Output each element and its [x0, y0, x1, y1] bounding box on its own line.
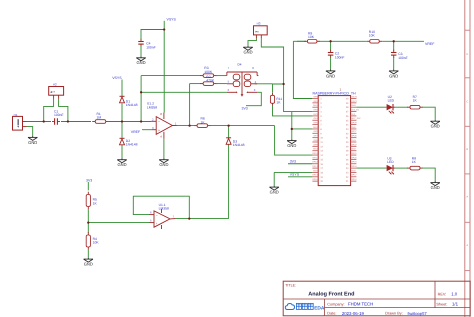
svg-text:1N4148: 1N4148: [126, 143, 138, 147]
svg-text:H2: H2: [53, 82, 57, 86]
svg-text:RASPBERRY-PI-PICO_TH: RASPBERRY-PI-PICO_TH: [313, 92, 357, 96]
svg-text:100K: 100K: [204, 70, 213, 74]
svg-text:GND: GND: [313, 126, 318, 129]
svg-text:VBUS: VBUS: [351, 95, 357, 98]
svg-text:GND: GND: [159, 162, 168, 167]
svg-text:GND: GND: [313, 169, 318, 172]
svg-text:VSYS: VSYS: [351, 100, 357, 103]
svg-text:GND: GND: [84, 262, 93, 267]
svg-text:GND: GND: [389, 73, 398, 78]
svg-text:3V3_EN: 3V3_EN: [351, 108, 359, 111]
svg-text:VREF: VREF: [425, 42, 434, 46]
svg-text:−: −: [156, 213, 158, 217]
svg-text:1/1: 1/1: [452, 302, 459, 307]
svg-text:REV:: REV:: [438, 292, 447, 296]
svg-text:1.0: 1.0: [451, 291, 458, 296]
svg-text:GND: GND: [431, 185, 440, 190]
svg-text:10K: 10K: [308, 35, 315, 39]
svg-text:3V3: 3V3: [86, 179, 92, 183]
svg-text:100nF: 100nF: [146, 45, 155, 49]
svg-text:EDA: EDA: [314, 305, 325, 311]
svg-text:GND: GND: [431, 124, 440, 129]
svg-text:GND: GND: [351, 169, 356, 172]
svg-text:Date:: Date:: [327, 312, 336, 316]
svg-text:H3: H3: [257, 22, 261, 26]
svg-text:GP26: GP26: [351, 135, 357, 138]
svg-text:1N4148: 1N4148: [233, 143, 245, 147]
svg-text:RUN: RUN: [351, 139, 356, 142]
svg-text:GP18: GP18: [351, 165, 357, 168]
svg-text:GP20: GP20: [351, 156, 357, 159]
svg-text:H1: H1: [14, 113, 18, 117]
svg-text:GP11: GP11: [312, 156, 318, 159]
svg-text:GND: GND: [136, 60, 145, 65]
svg-text:ADC_REF: ADC_REF: [351, 117, 361, 120]
svg-text:GP21: GP21: [351, 152, 357, 155]
svg-text:GND: GND: [326, 73, 335, 78]
svg-text:−: −: [158, 120, 160, 124]
svg-text:GP19: GP19: [351, 161, 357, 164]
svg-text:100nF: 100nF: [54, 113, 63, 117]
svg-text:2023-06-19: 2023-06-19: [342, 311, 365, 316]
svg-text:FHDM TECH: FHDM TECH: [348, 302, 373, 307]
svg-text:VREF: VREF: [131, 130, 140, 134]
svg-text:Drawn By:: Drawn By:: [385, 312, 403, 316]
svg-text:1N4148: 1N4148: [126, 103, 138, 107]
svg-text:D4: D4: [238, 62, 242, 66]
svg-text:GND: GND: [117, 162, 126, 167]
svg-text:GND: GND: [243, 50, 252, 55]
svg-text:GP14: GP14: [312, 174, 318, 177]
svg-text:Sheet:: Sheet:: [436, 302, 447, 306]
svg-text:fruitloop57: fruitloop57: [408, 311, 428, 316]
svg-text:GND: GND: [270, 190, 279, 195]
svg-text:LED: LED: [388, 99, 395, 103]
svg-text:LM358: LM358: [159, 206, 169, 210]
svg-text:GP16: GP16: [351, 178, 357, 181]
svg-text:GP17: GP17: [351, 174, 357, 177]
svg-text:470K: 470K: [206, 78, 215, 82]
svg-text:VSYS: VSYS: [112, 76, 122, 80]
svg-text:GP10: GP10: [312, 152, 318, 155]
svg-text:1M: 1M: [97, 116, 102, 120]
svg-text:GND: GND: [28, 140, 37, 145]
svg-text:A: A: [466, 196, 468, 199]
svg-text:Analog Front End: Analog Front End: [308, 291, 354, 297]
svg-text:GND: GND: [313, 148, 318, 151]
svg-text:GP12: GP12: [312, 161, 318, 164]
svg-text:LM358: LM358: [147, 105, 157, 109]
svg-text:GP27: GP27: [351, 130, 357, 133]
svg-text:GP13: GP13: [312, 165, 318, 168]
svg-text:GP28: GP28: [351, 122, 357, 125]
svg-text:100nF: 100nF: [335, 55, 344, 59]
svg-text:+: +: [158, 129, 160, 133]
svg-text:C: C: [466, 101, 468, 104]
svg-text:TITLE:: TITLE:: [285, 284, 296, 288]
svg-text:LED: LED: [387, 160, 394, 164]
svg-text:VSYS: VSYS: [290, 172, 300, 176]
svg-text:3V3: 3V3: [242, 107, 248, 111]
svg-text:+: +: [156, 222, 158, 226]
svg-text:VSYS: VSYS: [167, 17, 177, 21]
svg-text:GND: GND: [351, 126, 356, 129]
svg-text:10K: 10K: [369, 33, 376, 37]
svg-text:GND: GND: [287, 143, 296, 148]
svg-text:GND: GND: [351, 104, 356, 107]
svg-text:D: D: [466, 53, 468, 56]
svg-text:GND: GND: [351, 148, 356, 151]
svg-text:Company:: Company:: [327, 302, 344, 306]
svg-text:GND: GND: [313, 104, 318, 107]
svg-text:3V3: 3V3: [290, 160, 296, 164]
svg-text:GP15: GP15: [312, 178, 318, 181]
svg-text:10K: 10K: [93, 241, 100, 245]
svg-text:A: A: [466, 244, 468, 247]
svg-text:B: B: [466, 148, 468, 151]
svg-text:100nF: 100nF: [398, 56, 407, 60]
svg-text:GP22: GP22: [351, 143, 357, 146]
